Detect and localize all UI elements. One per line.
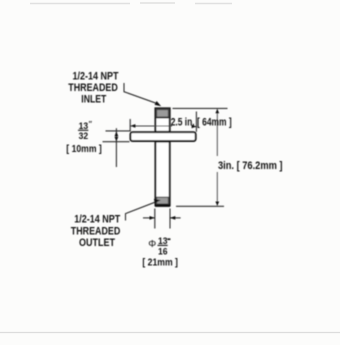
svg-text:1/2-14 NPT: 1/2-14 NPT: [73, 70, 119, 82]
svg-text:THREADED: THREADED: [71, 225, 121, 237]
svg-text:1/2-14 NPT: 1/2-14 NPT: [74, 213, 120, 225]
svg-text:THREADED: THREADED: [68, 82, 118, 94]
svg-text:OUTLET: OUTLET: [79, 237, 115, 249]
svg-text:2.5 in. [ 64mm ]: 2.5 in. [ 64mm ]: [171, 117, 232, 129]
svg-text:[ 10mm ]: [ 10mm ]: [66, 143, 102, 155]
svg-text:[ 21mm ]: [ 21mm ]: [142, 257, 178, 269]
svg-text:Φ: Φ: [148, 239, 156, 250]
svg-text:32: 32: [79, 131, 89, 141]
svg-text:INLET: INLET: [81, 93, 106, 105]
svg-text:16: 16: [158, 246, 168, 256]
svg-text:13: 13: [158, 236, 168, 246]
svg-text:3in. [ 76.2mm ]: 3in. [ 76.2mm ]: [218, 160, 283, 172]
svg-text:13: 13: [79, 121, 89, 131]
